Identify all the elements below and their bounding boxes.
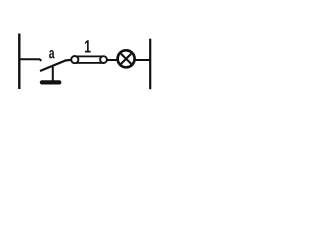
fuse left terminal [71, 56, 78, 63]
label 1 [85, 40, 91, 52]
switch actuator stem [52, 67, 54, 81]
fuse right terminal [100, 56, 107, 63]
wire lamp to right rail [135, 59, 150, 61]
left supply rail [18, 34, 20, 90]
wire fuse to lamp [107, 59, 118, 61]
switch handle bar [40, 80, 62, 84]
switch a blade [40, 60, 71, 71]
switch a label [49, 50, 55, 58]
lamp E1 [118, 50, 135, 67]
fuse 1 body [75, 56, 104, 63]
right supply rail [149, 39, 151, 89]
wire from left rail to switch fixed contact [19, 59, 41, 61]
